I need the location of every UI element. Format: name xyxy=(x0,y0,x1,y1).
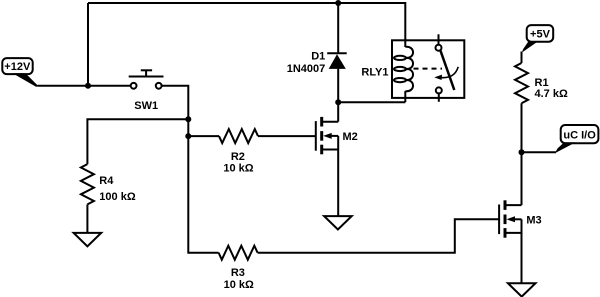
relay RLY1 xyxy=(361,34,464,102)
svg-text:R2: R2 xyxy=(231,151,245,163)
resistor R1 xyxy=(515,63,568,103)
svg-text:SW1: SW1 xyxy=(134,100,158,112)
ground M2 xyxy=(324,216,352,229)
net tag +5V xyxy=(522,25,553,52)
wire top rail xyxy=(88,3,405,47)
svg-text:M2: M2 xyxy=(343,131,358,143)
wire node to R4 xyxy=(87,119,188,164)
wire node to uC tag xyxy=(522,151,557,153)
wire M3 drain xyxy=(521,152,523,205)
svg-text:10 kΩ: 10 kΩ xyxy=(224,279,254,291)
svg-text:1N4007: 1N4007 xyxy=(287,63,326,75)
diode D1 1N4007 xyxy=(287,3,347,102)
ground R4 xyxy=(74,233,102,246)
resistor R2 xyxy=(188,129,258,175)
wire SW1 to node xyxy=(162,86,189,120)
wire riser to top rail xyxy=(87,3,89,86)
junction D1 top rail xyxy=(335,0,341,6)
wire +12V to SW1 xyxy=(38,85,131,87)
net tag +12V xyxy=(2,58,38,87)
wire +5V to R1 xyxy=(521,52,523,64)
svg-text:R3: R3 xyxy=(231,267,245,279)
resistor R4 xyxy=(81,164,136,233)
junction node R2 branch xyxy=(185,133,191,139)
net tag uC I/O xyxy=(555,125,599,153)
junction node +12V rail xyxy=(85,83,91,89)
svg-text:100 kΩ: 100 kΩ xyxy=(99,191,136,203)
transistor M3 xyxy=(499,200,542,237)
svg-text:R4: R4 xyxy=(99,175,114,187)
svg-text:M3: M3 xyxy=(526,214,541,226)
svg-text:uC I/O: uC I/O xyxy=(563,129,596,141)
wire M3 source to ground xyxy=(521,219,523,283)
wire R1 to node xyxy=(521,103,523,152)
pushbutton SW1 xyxy=(129,70,164,112)
wire node to R3 xyxy=(188,136,218,253)
junction node R4 branch xyxy=(185,116,191,122)
transistor M2 xyxy=(316,117,358,154)
svg-text:+12V: +12V xyxy=(4,61,31,73)
wire M2 drain xyxy=(337,102,339,122)
wire R3 to M3 gate xyxy=(258,219,500,252)
wire node segment xyxy=(187,119,189,136)
svg-text:RLY1: RLY1 xyxy=(361,67,388,79)
ground M3 xyxy=(508,283,536,296)
wire coil bottom xyxy=(338,101,405,103)
svg-text:D1: D1 xyxy=(311,50,325,62)
junction D1 / relay coil / M2 drain xyxy=(335,99,341,105)
resistor R3 xyxy=(219,246,258,292)
wire M2 source to ground xyxy=(337,136,339,216)
svg-text:+5V: +5V xyxy=(530,28,551,40)
svg-text:10 kΩ: 10 kΩ xyxy=(223,163,253,175)
wire R2 to M2 gate xyxy=(258,135,316,137)
svg-text:4.7 kΩ: 4.7 kΩ xyxy=(535,88,568,100)
junction node uC I/O xyxy=(519,149,525,155)
